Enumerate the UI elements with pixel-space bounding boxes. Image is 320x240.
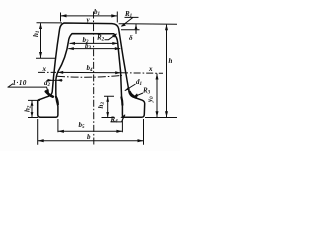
dim h2 left foot bbox=[28, 100, 40, 117]
svg-text:h2: h2 bbox=[24, 105, 33, 112]
axis y (vertical centerline) bbox=[93, 12, 95, 145]
leader R1 bbox=[122, 17, 139, 26]
arrows b1 bbox=[61, 14, 67, 17]
arrows b2 bbox=[70, 42, 76, 45]
dim b bottom bbox=[38, 119, 144, 145]
dim b1 top bbox=[61, 12, 118, 23]
arrows h3 bbox=[106, 97, 109, 102]
dim b4 bbox=[58, 71, 121, 73]
arrows h1 bbox=[39, 23, 42, 29]
svg-text:δ: δ bbox=[129, 34, 133, 42]
leader d1 bbox=[125, 84, 136, 91]
arrow 1:10 leader bbox=[46, 89, 49, 94]
svg-text:d1: d1 bbox=[136, 78, 142, 87]
dim b2 bbox=[70, 42, 118, 44]
leader R2 bbox=[105, 34, 117, 40]
fillet blob left foot inner hook bbox=[56, 97, 58, 105]
svg-text:1·10: 1·10 bbox=[13, 79, 27, 87]
leader 1:10 arrow bbox=[47, 87, 49, 93]
dim h right bbox=[119, 24, 177, 118]
svg-text:x: x bbox=[42, 65, 47, 73]
arrow delta bbox=[135, 24, 138, 29]
slope 1:10 shelf bbox=[8, 84, 48, 88]
dim d2 bbox=[48, 79, 63, 81]
svg-text:b1: b1 bbox=[94, 8, 100, 17]
svg-text:h: h bbox=[169, 57, 173, 65]
arrow R4 bbox=[120, 115, 125, 119]
leader R3 bbox=[133, 93, 143, 97]
arrows b bbox=[38, 139, 44, 142]
profile outline bbox=[38, 23, 145, 117]
arrows y0 bbox=[156, 74, 159, 80]
fillet blob right web-foot bbox=[130, 92, 136, 98]
arrows d2 bbox=[48, 79, 53, 82]
svg-text:h1: h1 bbox=[32, 31, 41, 37]
svg-text:x: x bbox=[148, 65, 153, 73]
svg-text:R1: R1 bbox=[124, 10, 132, 19]
fillet blob left web-foot bbox=[46, 92, 53, 97]
arrow d1 bbox=[125, 87, 130, 91]
arrow R1 bbox=[121, 23, 126, 27]
dim y0 right bbox=[156, 74, 158, 118]
arrows h2 bbox=[31, 101, 34, 106]
arrow R2 bbox=[112, 34, 117, 38]
svg-text:y0: y0 bbox=[146, 96, 155, 103]
arrow R3 bbox=[133, 93, 138, 97]
axis x (horizontal centerline) bbox=[38, 71, 163, 74]
arrows h bbox=[165, 24, 168, 30]
svg-text:R4: R4 bbox=[110, 116, 119, 125]
dim h1 left bbox=[36, 23, 62, 59]
leader R4 bbox=[111, 115, 126, 122]
dim delta (top-right small) bbox=[121, 24, 140, 34]
svg-text:b4: b4 bbox=[87, 64, 94, 73]
arrows b5 bbox=[58, 130, 64, 133]
dim h3 bbox=[102, 96, 115, 117]
svg-text:R2: R2 bbox=[96, 34, 105, 43]
fillet blob right foot inner hook bbox=[121, 97, 122, 105]
svg-text:b5: b5 bbox=[79, 121, 86, 130]
arrows b3 bbox=[68, 47, 74, 50]
svg-text:b: b bbox=[87, 133, 91, 141]
dim b5 bbox=[58, 119, 123, 132]
dim b3 bbox=[68, 48, 120, 50]
arrows b4 bbox=[58, 71, 64, 74]
svg-text:R3: R3 bbox=[142, 87, 151, 96]
svg-text:h3: h3 bbox=[97, 102, 106, 109]
